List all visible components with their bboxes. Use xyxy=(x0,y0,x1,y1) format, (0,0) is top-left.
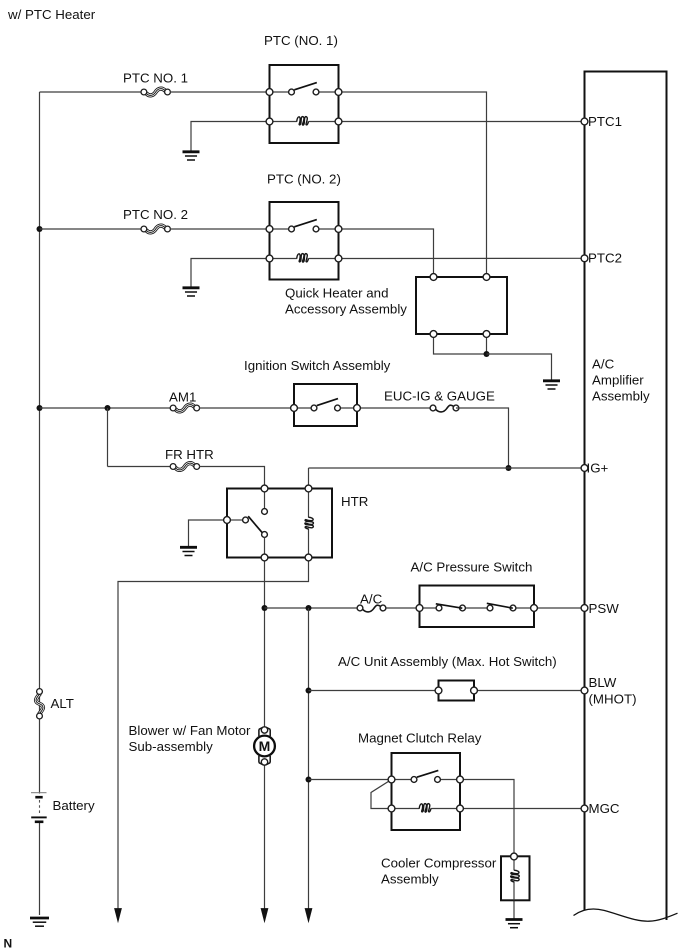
wire MGC feed to magnet clutch relay xyxy=(309,779,392,781)
svg-text:PTC NO. 1: PTC NO. 1 xyxy=(123,71,188,86)
svg-text:Ignition Switch Assembly: Ignition Switch Assembly xyxy=(244,358,391,373)
wire IG+ row xyxy=(309,467,582,469)
svg-text:A/C Unit Assembly (Max. Hot Sw: A/C Unit Assembly (Max. Hot Switch) xyxy=(338,654,557,669)
terminal PSW xyxy=(581,605,588,612)
wire battery B+ trunk vertical xyxy=(39,92,41,915)
wire x308 distribution trunk xyxy=(308,608,310,909)
wire PSW row left segment xyxy=(265,607,357,609)
motor M blower xyxy=(254,727,275,765)
svg-text:A/C: A/C xyxy=(592,357,615,372)
ignition switch contacts xyxy=(294,405,357,411)
terminal compressor pin xyxy=(511,853,518,860)
svg-text:Quick Heater and: Quick Heater and xyxy=(285,286,388,301)
svg-text:PSW: PSW xyxy=(589,601,620,616)
svg-text:Magnet Clutch Relay: Magnet Clutch Relay xyxy=(358,731,482,746)
wire magnet clutch relay output to compressor xyxy=(460,780,514,854)
wire PTC relay 2 output to Quick Heater xyxy=(339,229,434,277)
terminal PTC2 xyxy=(581,255,588,262)
wire HTR switch output down to blower motor xyxy=(264,558,266,727)
svg-text:PTC2: PTC2 xyxy=(588,251,622,266)
ground battery trunk xyxy=(30,918,49,926)
wire A/C breaker to pressure switch xyxy=(386,607,419,609)
PTC relay 1 switch contacts xyxy=(270,89,339,95)
fuse AM1 xyxy=(170,405,199,412)
arrow to N (left) xyxy=(114,908,122,923)
node AM1/FR HTR branch junction xyxy=(105,405,111,411)
svg-text:Battery: Battery xyxy=(53,798,95,813)
wire PTC relay 2 coil to PTC2 terminal xyxy=(339,257,582,259)
wire pressure switch to PSW terminal xyxy=(534,607,582,609)
wire magnet clutch relay coil feed branch xyxy=(371,781,390,809)
wire magnet clutch relay coil to MGC terminal xyxy=(460,808,582,810)
wire EUC-IG breaker down to IG+ row xyxy=(456,408,509,468)
relay HTR box xyxy=(227,489,332,558)
coil magnet clutch relay xyxy=(419,804,431,812)
svg-text:EUC-IG & GAUGE: EUC-IG & GAUGE xyxy=(384,389,495,404)
wire motor output to blower arrow xyxy=(264,765,266,909)
coil compressor clutch xyxy=(511,870,519,882)
PTC relay 1 coil leads xyxy=(270,121,339,123)
PTC relay 2 switch blade xyxy=(294,220,317,227)
ground PTC relay 1 coil xyxy=(183,152,200,160)
circuit breaker EUC-IG & GAUGE xyxy=(430,405,459,412)
circuit breaker A/C xyxy=(357,605,386,612)
svg-text:PTC1: PTC1 xyxy=(588,114,622,129)
fuse PTC NO. 1 xyxy=(141,89,170,96)
HTR relay lower throw contact xyxy=(262,532,268,538)
wire PTC relay 2 coil to ground xyxy=(191,259,270,288)
relay PTC (NO. 2) box xyxy=(270,202,339,280)
node BLW row junction xyxy=(306,688,312,694)
svg-text:MGC: MGC xyxy=(589,801,620,816)
svg-text:AM1: AM1 xyxy=(169,390,196,405)
wire PTC NO.1 feed left segment xyxy=(40,91,142,93)
wire PTC NO.2 feed left segment xyxy=(40,228,142,230)
wire HTR relay common to ground xyxy=(189,520,228,547)
node MGC row junction xyxy=(306,777,312,783)
node PSW/x308 junction xyxy=(306,605,312,611)
HTR relay coil leads xyxy=(308,489,310,558)
svg-text:PTC NO. 2: PTC NO. 2 xyxy=(123,207,188,222)
wire FR HTR branch down xyxy=(107,408,109,467)
coil PTC relay 1 xyxy=(297,117,309,125)
Quick Heater and Accessory Assembly box xyxy=(416,277,507,334)
node trunk/AM1 junction xyxy=(37,405,43,411)
svg-text:PTC (NO. 2): PTC (NO. 2) xyxy=(267,172,341,187)
terminal MGC xyxy=(581,805,588,812)
magnet clutch switch blade xyxy=(417,770,439,777)
relay PTC (NO. 1) box xyxy=(270,65,339,143)
fuse FR HTR xyxy=(170,463,199,470)
coil HTR relay xyxy=(305,517,313,529)
terminal IG+ xyxy=(581,465,588,472)
terminal BLW (MHOT) xyxy=(581,687,588,694)
fusible link ALT xyxy=(36,689,43,719)
node PSW row junction at x264 xyxy=(262,605,268,611)
ground cooler compressor xyxy=(506,920,523,928)
coil PTC relay 2 xyxy=(297,254,309,262)
svg-text:A/C Pressure Switch: A/C Pressure Switch xyxy=(411,560,533,575)
Ignition Switch Assembly box xyxy=(294,384,357,426)
A/C Unit Assembly (Max. Hot Switch) box xyxy=(439,681,475,701)
wire PTC relay 1 coil to ground xyxy=(191,122,270,152)
ignition switch blade xyxy=(317,399,338,406)
node trunk/PTC NO.2 junction xyxy=(37,226,43,232)
svg-text:N: N xyxy=(4,937,13,951)
wire ignition switch to EUC-IG breaker xyxy=(357,407,433,409)
HTR relay switch link lower xyxy=(264,537,266,554)
svg-text:ALT: ALT xyxy=(51,696,74,711)
terminal PTC relay 2 pins xyxy=(266,226,342,262)
svg-text:Assembly: Assembly xyxy=(592,389,650,404)
battery xyxy=(31,793,47,823)
magnet clutch switch contacts xyxy=(392,777,461,783)
terminal PTC1 xyxy=(581,118,588,125)
pressure switch blade 2 xyxy=(487,603,513,608)
wire max-hot switch to BLW terminal xyxy=(474,690,582,692)
node IG+ row junction xyxy=(506,465,512,471)
magnet clutch coil leads xyxy=(392,808,461,810)
terminal PTC relay 1 pins xyxy=(266,89,342,125)
wire PTC NO.1 feed to relay xyxy=(170,91,270,93)
PTC relay 2 coil leads xyxy=(270,258,339,260)
PTC relay 1 switch blade xyxy=(294,83,317,90)
wire HTR coil feed vertical xyxy=(308,468,310,489)
svg-text:A/C: A/C xyxy=(360,592,383,607)
HTR relay common lead xyxy=(227,519,243,521)
terminal max-hot switch pins xyxy=(435,687,477,694)
terminal HTR relay pins xyxy=(224,485,312,561)
ground Quick Heater xyxy=(543,381,560,389)
wire PTC relay 1 coil to PTC1 terminal xyxy=(339,121,582,123)
fuse PTC NO. 2 xyxy=(141,226,170,233)
ground HTR relay xyxy=(180,547,197,555)
A/C Amplifier Assembly box xyxy=(574,71,678,922)
svg-text:Amplifier: Amplifier xyxy=(592,373,644,388)
pressure switch blade 1 xyxy=(436,604,463,608)
wire compressor to ground xyxy=(513,901,515,919)
HTR relay common contact xyxy=(243,517,249,523)
wire PTC relay 1 output to Quick Heater xyxy=(339,92,487,277)
wire Quick Heater return to ground xyxy=(487,354,552,380)
svg-text:HTR: HTR xyxy=(341,494,368,509)
ground PTC relay 2 coil xyxy=(183,288,200,296)
wire FR HTR row to fuse xyxy=(108,466,171,468)
terminal pressure switch pins xyxy=(416,605,537,612)
svg-text:FR HTR: FR HTR xyxy=(165,447,214,462)
svg-text:Sub-assembly: Sub-assembly xyxy=(129,739,214,754)
svg-text:PTC (NO. 1): PTC (NO. 1) xyxy=(264,33,338,48)
wire AM1 fuse to ignition switch xyxy=(199,407,294,409)
relay Magnet Clutch box xyxy=(392,753,461,830)
wire HTR coil return to page-N arrow xyxy=(118,558,309,910)
compressor clutch coil leads xyxy=(513,856,515,900)
Cooler Compressor Assembly box xyxy=(501,856,530,900)
svg-text:M: M xyxy=(259,738,271,754)
svg-text:BLW: BLW xyxy=(589,675,617,690)
wire PTC NO.2 feed to relay xyxy=(170,228,270,230)
HTR relay switch link upper xyxy=(264,492,266,509)
svg-text:Accessory Assembly: Accessory Assembly xyxy=(285,302,407,317)
wire AM1 row trunk to fuse xyxy=(40,407,171,409)
svg-text:w/ PTC Heater: w/ PTC Heater xyxy=(7,7,96,22)
wire Quick Heater bottom-right return xyxy=(486,334,488,354)
HTR relay switch blade xyxy=(248,516,263,534)
svg-text:Blower w/ Fan Motor: Blower w/ Fan Motor xyxy=(129,723,251,738)
terminal ignition switch pins xyxy=(291,405,361,412)
svg-text:(MHOT): (MHOT) xyxy=(589,692,637,707)
terminal Quick Heater pins xyxy=(430,274,490,338)
pressure switch contacts xyxy=(420,605,535,611)
arrow to N (x308) xyxy=(305,908,313,923)
node Quick Heater return junction xyxy=(484,351,490,357)
svg-text:IG+: IG+ xyxy=(587,461,609,476)
A/C Pressure Switch box xyxy=(420,586,535,628)
svg-text:Cooler Compressor: Cooler Compressor xyxy=(381,856,497,871)
HTR relay upper throw contact xyxy=(262,509,268,515)
arrow to N (blower) xyxy=(261,908,269,923)
wire Quick Heater bottom-left return xyxy=(434,334,487,354)
terminal magnet clutch pins xyxy=(388,776,463,812)
wire FR HTR fuse to HTR relay xyxy=(199,467,265,489)
PTC relay 2 switch contacts xyxy=(270,226,339,232)
wire BLW row to max-hot switch xyxy=(309,690,439,692)
svg-text:Assembly: Assembly xyxy=(381,872,439,887)
